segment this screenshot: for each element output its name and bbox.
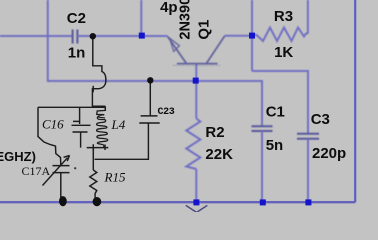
capacitor C1 plates (252, 126, 273, 131)
svg-text:1n: 1n (68, 45, 86, 62)
node junction square R2/ground (193, 199, 199, 205)
junction tick (92, 86, 94, 92)
wire R15 top lead (92, 148, 94, 170)
capacitor C3 plates (297, 134, 319, 139)
capacitor C17A plates (53, 166, 70, 173)
svg-text:C3: C3 (311, 111, 330, 128)
svg-text:C1: C1 (266, 104, 285, 121)
svg-text:C23: C23 (158, 107, 175, 118)
wire tank bottom node (87, 144, 109, 151)
capacitor C23 plates (139, 116, 159, 123)
wire right supply rail (354, 0, 356, 202)
ground rail (0, 201, 355, 203)
wire node to C3 feed (252, 71, 308, 134)
svg-text:R15: R15 (104, 170, 126, 185)
stray dot (74, 167, 76, 169)
node black dot C23 (147, 77, 153, 83)
transistor Q1 base bar (177, 63, 218, 65)
wire C1 to ground rail (261, 131, 263, 202)
node junction square collector/R3 (249, 33, 255, 39)
wire Q1 base lead down (195, 65, 197, 119)
capacitor C17A arrow (43, 156, 70, 186)
resistor R3 zigzag (252, 28, 308, 42)
wire tank top node (38, 106, 105, 111)
svg-text:C17A: C17A (22, 164, 51, 178)
node junction square C1/ground (260, 199, 266, 205)
svg-text:L4: L4 (111, 117, 126, 132)
transistor Q1 base hatch (173, 64, 220, 66)
wire C17A bottom lead (60, 173, 62, 198)
svg-text:22K: 22K (205, 146, 233, 163)
svg-text:C2: C2 (67, 10, 86, 27)
transistor Q1 collector (207, 36, 225, 64)
svg-text:Q1: Q1 (195, 20, 212, 40)
svg-text:C16: C16 (42, 117, 64, 132)
svg-text:R2: R2 (205, 124, 224, 141)
svg-text:1K: 1K (274, 44, 293, 61)
wire vertical at R3 left node (251, 0, 253, 71)
node junction square base/bus (193, 78, 199, 84)
wire black from C2 node with hop over bus (92, 38, 106, 107)
wire C16 bottom lead (80, 132, 82, 148)
resistor R15 zigzag (90, 170, 97, 198)
wire C23 top lead (149, 80, 151, 116)
transistor Q1 emitter (168, 36, 187, 63)
wire C2 to node (77, 35, 167, 37)
wire tank to C23 bottom (95, 123, 149, 159)
wire collector to node (225, 35, 252, 37)
capacitor C16 plates (72, 125, 91, 132)
wire C3 to ground rail (307, 139, 309, 202)
svg-text:4p: 4p (160, 0, 178, 16)
svg-text:EGHZ): EGHZ) (0, 149, 36, 164)
transistor Q1 emitter arrow (170, 38, 180, 51)
wire tank left branch down to C17A (38, 107, 61, 165)
wire R2 to ground rail (195, 169, 197, 202)
node junction square C3/ground (305, 199, 311, 205)
pad C17A (59, 196, 67, 206)
inductor L4 inner scribble (98, 117, 105, 119)
node black dot C2 (90, 33, 96, 39)
wire input to C2 (0, 35, 72, 37)
wire C16 top lead (73, 107, 80, 124)
wire R3 right lead up to top edge (307, 0, 309, 34)
resistor R2 zigzag (186, 119, 200, 170)
wire vertical to 4p cap (top edge) (140, 0, 142, 36)
svg-text:5n: 5n (266, 137, 284, 154)
wire left vertical and horizontal bus to C1 (48, 0, 262, 126)
svg-text:R3: R3 (274, 8, 293, 25)
pad R15 (93, 197, 102, 206)
svg-text:2N3904: 2N3904 (177, 0, 193, 40)
ground symbol (186, 205, 208, 212)
node junction square C2/4p/emitter (139, 33, 145, 39)
capacitor C2 plates (73, 30, 78, 44)
svg-text:220p: 220p (312, 145, 346, 162)
inductor L4 (97, 107, 108, 147)
